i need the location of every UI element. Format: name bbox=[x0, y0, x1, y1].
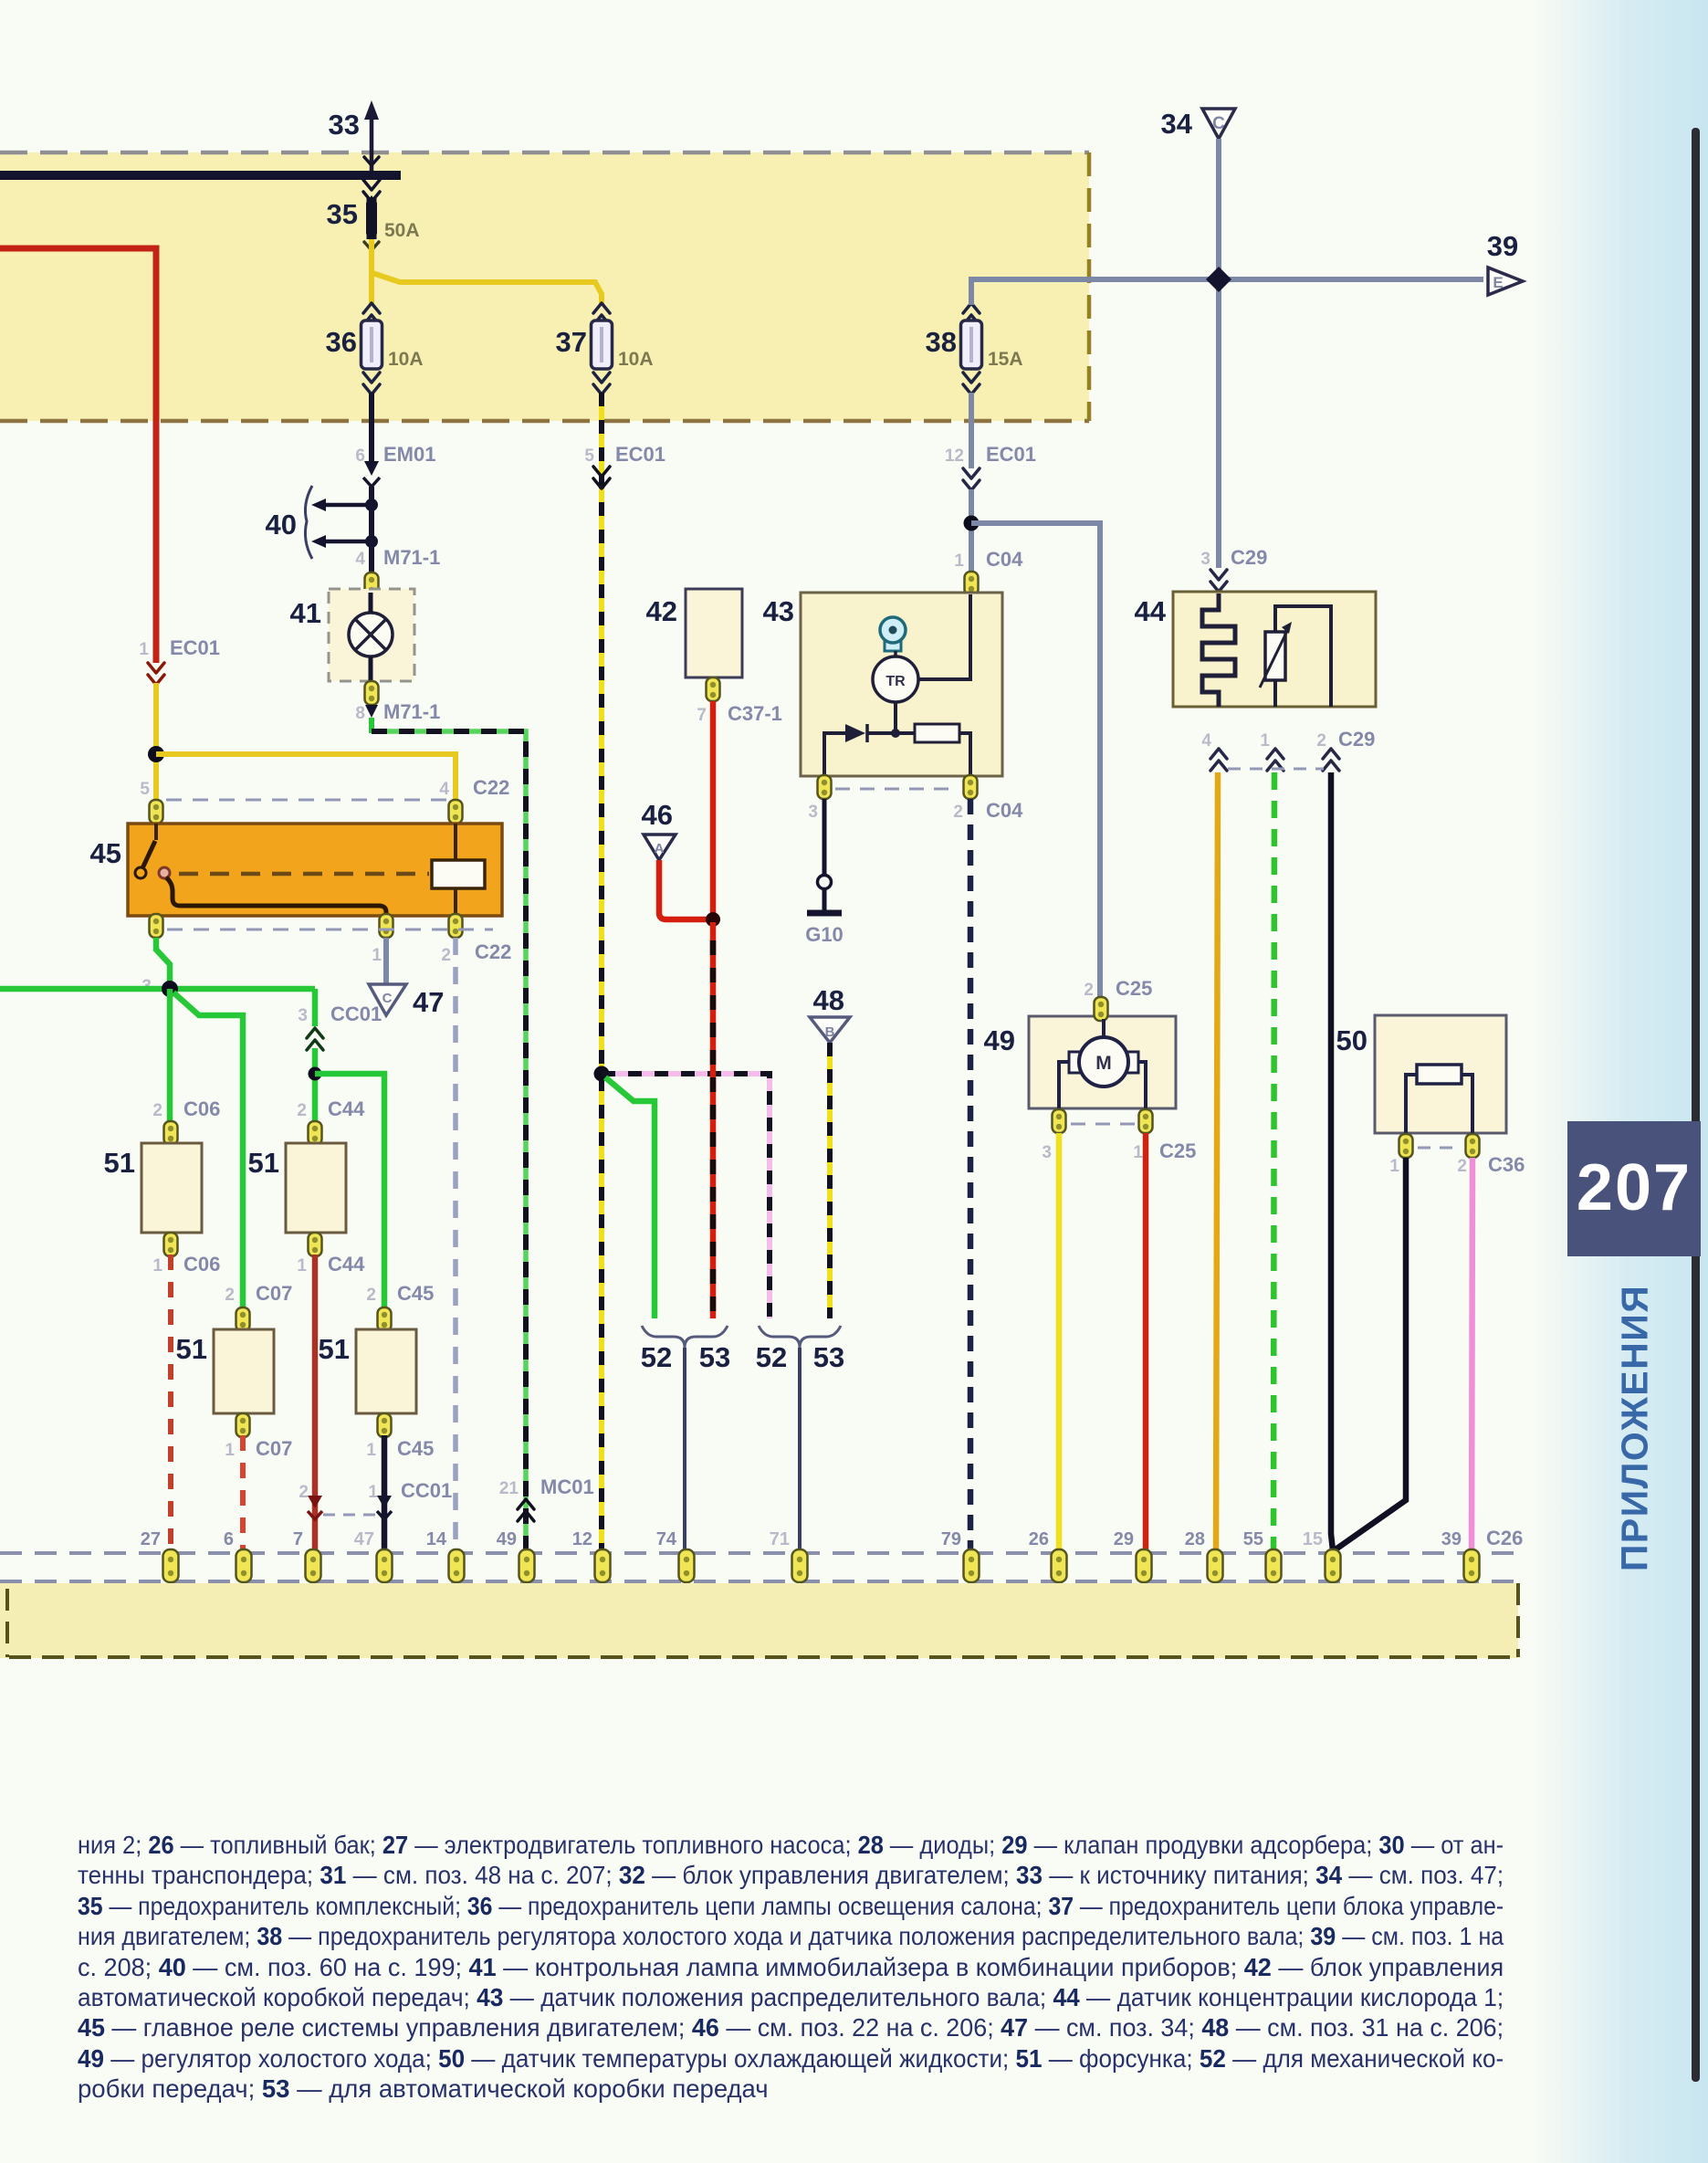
connector pad M71-1 pin 8 bbox=[365, 681, 379, 705]
svg-text:EC01: EC01 bbox=[986, 443, 1036, 466]
wire EM01 to connector M71-1 bbox=[369, 487, 374, 573]
connector C36 dashed line bbox=[1418, 1147, 1462, 1150]
svg-text:8: 8 bbox=[355, 704, 365, 723]
svg-text:47: 47 bbox=[413, 986, 444, 1018]
ground G10 bbox=[807, 910, 842, 917]
svg-text:39: 39 bbox=[1441, 1529, 1462, 1549]
svg-text:2: 2 bbox=[366, 1286, 376, 1305]
gray wire fuse38 to EC01 connector bbox=[969, 393, 974, 468]
svg-text:6: 6 bbox=[355, 446, 365, 466]
yellow/black dashed wire from 48 (53 group) bbox=[827, 1043, 833, 1318]
ECU connector lower dashed line bbox=[0, 1580, 1515, 1583]
svg-text:7: 7 bbox=[697, 706, 707, 725]
red wire from node 46 to junction bbox=[659, 860, 713, 919]
junction on C04 wire bbox=[964, 516, 980, 531]
svg-text:53: 53 bbox=[699, 1341, 730, 1373]
svg-text:55: 55 bbox=[1243, 1529, 1263, 1549]
svg-text:3: 3 bbox=[1042, 1143, 1052, 1162]
wire from right brace to ECU pin 71 bbox=[798, 1348, 802, 1559]
svg-text:37: 37 bbox=[556, 326, 587, 358]
connector pads C36 pins 1 and 2 bbox=[1399, 1134, 1413, 1158]
svg-text:M71-1: M71-1 bbox=[383, 700, 440, 723]
svg-text:1: 1 bbox=[368, 1483, 378, 1502]
svg-text:1: 1 bbox=[225, 1441, 235, 1460]
svg-text:C45: C45 bbox=[397, 1282, 434, 1305]
motor symbol in 49 bbox=[1102, 1019, 1105, 1041]
svg-text:39: 39 bbox=[1487, 230, 1518, 262]
green wire relay pin3 to junction bbox=[156, 938, 170, 989]
red wire from 42 down bbox=[710, 701, 717, 922]
green dashed wire 44 pin1 to ECU pin 55 bbox=[1273, 772, 1274, 1561]
svg-text:C07: C07 bbox=[256, 1437, 292, 1460]
svg-text:TR: TR bbox=[885, 674, 906, 689]
resistor symbol in 50 bbox=[1406, 1075, 1417, 1133]
fuse F37 10A (ECM circuit) bbox=[593, 303, 610, 325]
svg-text:10A: 10A bbox=[388, 349, 424, 370]
main gray wire from fuse 38 to node 39 bbox=[971, 279, 1483, 305]
right page-edge cyan gradient band bbox=[1534, 0, 1708, 2163]
svg-text:27: 27 bbox=[141, 1529, 161, 1549]
svg-text:C06: C06 bbox=[183, 1253, 220, 1276]
svg-text:1: 1 bbox=[297, 1256, 307, 1276]
svg-text:2: 2 bbox=[1316, 731, 1326, 751]
black wire injector C45 to ECU pin 47 bbox=[382, 1435, 388, 1559]
immobilizer warning lamp 41 (dashed box) bbox=[329, 589, 414, 681]
wire from left brace to ECU pin 74 bbox=[683, 1348, 686, 1559]
pink/black dashed branch wire (52/53 group) bbox=[602, 1074, 770, 1318]
svg-text:10A: 10A bbox=[618, 349, 654, 370]
wire fuse36 to EM01 connector bbox=[369, 393, 374, 461]
svg-text:A: A bbox=[655, 841, 665, 856]
fuse F35 50A (complex fuse) bbox=[366, 195, 377, 241]
svg-text:52: 52 bbox=[641, 1341, 672, 1373]
svg-text:79: 79 bbox=[941, 1529, 961, 1549]
svg-text:1: 1 bbox=[366, 1441, 376, 1460]
svg-text:21: 21 bbox=[499, 1479, 519, 1498]
connector CC01 dashed line bbox=[323, 1514, 377, 1517]
node 47 triangle C (see item 34) bbox=[369, 984, 406, 1015]
relay 45 dashed control line bbox=[179, 872, 429, 877]
connector C25 dashed line bbox=[1071, 1123, 1135, 1126]
svg-text:42: 42 bbox=[646, 595, 677, 627]
svg-text:43: 43 bbox=[763, 595, 794, 627]
red wire 49 pin1 to ECU pin 29 bbox=[1143, 1133, 1149, 1559]
svg-text:4: 4 bbox=[439, 780, 449, 799]
svg-text:C25: C25 bbox=[1159, 1139, 1196, 1162]
svg-text:15A: 15A bbox=[988, 349, 1023, 370]
connector pads C22 pins 5 and 4 bbox=[150, 800, 163, 824]
svg-text:CC01: CC01 bbox=[330, 1003, 382, 1025]
junction on EC01 wire bbox=[594, 1066, 610, 1082]
connector C04 dashed line bbox=[835, 788, 959, 791]
ATX control unit 42 bbox=[686, 589, 742, 677]
yellow wire to relay 45 pin 4 bbox=[156, 754, 456, 802]
svg-text:C37-1: C37-1 bbox=[728, 702, 782, 725]
lamp symbol inside 41 bbox=[349, 613, 393, 656]
svg-text:34: 34 bbox=[1161, 108, 1193, 140]
svg-text:1: 1 bbox=[954, 551, 964, 571]
green branch wire (52 manual gearbox) bbox=[605, 1077, 655, 1318]
main engine-control relay 45 box bbox=[128, 824, 502, 916]
sidebar title bbox=[1634, 1427, 1636, 1429]
TR circle in 43 bbox=[894, 651, 897, 659]
svg-text:C44: C44 bbox=[328, 1253, 365, 1276]
fuse box bottom dashed border bbox=[0, 419, 1089, 424]
svg-text:48: 48 bbox=[813, 984, 844, 1016]
connector pad C37-1 pin 7 bbox=[707, 677, 720, 701]
svg-text:2: 2 bbox=[297, 1101, 307, 1120]
svg-text:M: M bbox=[1095, 1053, 1112, 1074]
junction diamond at 34/39 wire crossing bbox=[1206, 267, 1231, 292]
red wire from left edge (ignition feed) bbox=[0, 248, 156, 663]
svg-text:51: 51 bbox=[104, 1147, 135, 1179]
fuse/relay box (power distribution, yellow) bbox=[0, 152, 1089, 421]
junction on green wire bbox=[162, 981, 178, 997]
gray wire relay pin1 to node 47 bbox=[383, 938, 389, 984]
page scan edge dark line bbox=[1692, 128, 1700, 2082]
svg-text:7: 7 bbox=[293, 1529, 303, 1549]
svg-text:46: 46 bbox=[642, 799, 673, 831]
svg-text:35: 35 bbox=[327, 198, 358, 230]
red dashed wire injector C06 to ECU pin 27 bbox=[168, 1255, 173, 1559]
variable resistor in 44 bbox=[1275, 606, 1331, 707]
svg-text:C26: C26 bbox=[1486, 1527, 1523, 1549]
heater element in 44 bbox=[1202, 593, 1235, 707]
svg-text:CC01: CC01 bbox=[401, 1479, 452, 1502]
idle air control valve 49 box bbox=[1029, 1016, 1176, 1108]
connector C22 bottom dashed line bbox=[167, 929, 493, 931]
connector C29 chevrons bbox=[1210, 749, 1227, 771]
svg-text:3: 3 bbox=[808, 803, 818, 822]
svg-text:38: 38 bbox=[926, 326, 957, 358]
svg-text:33: 33 bbox=[329, 109, 360, 141]
svg-text:51: 51 bbox=[319, 1333, 350, 1365]
junction of red wires bbox=[706, 912, 720, 927]
svg-text:15: 15 bbox=[1303, 1529, 1323, 1549]
svg-text:50A: 50A bbox=[384, 220, 420, 241]
wiring inside 43 bbox=[918, 594, 970, 679]
node 34 triangle C (from item 47) bbox=[1202, 109, 1235, 139]
green feed wire from left edge bbox=[0, 986, 315, 992]
connector C22 top dashed line bbox=[166, 799, 447, 802]
svg-text:2: 2 bbox=[1084, 981, 1094, 1000]
black wire 50 pin1 to ECU pin 15 bbox=[1336, 1158, 1406, 1549]
svg-text:G10: G10 bbox=[805, 923, 844, 946]
red dashed wire injector C07 to ECU pin 6 bbox=[240, 1435, 246, 1559]
fuse box top dashed border bbox=[0, 151, 1089, 155]
wire EC01 to camshaft sensor bbox=[969, 489, 974, 573]
black/white dashed wire 43 pin2 to ECU pin 79 bbox=[968, 799, 974, 1559]
gold wire 44 pin4 to ECU pin 28 bbox=[1216, 772, 1218, 1559]
page number tab 207 bbox=[1567, 1121, 1701, 1256]
svg-text:C: C bbox=[1212, 114, 1225, 133]
svg-text:C29: C29 bbox=[1338, 728, 1375, 751]
node 48 triangle B (from item 31 p.206) bbox=[810, 1017, 850, 1043]
brace group 52/53 (right pair) bbox=[759, 1326, 841, 1348]
engine control unit 32 (ECU yellow box) bbox=[0, 1583, 1518, 1658]
connector pads C22 pins 3 1 2 bbox=[150, 914, 163, 938]
junction on green wire at C44 bbox=[309, 1067, 322, 1081]
connector pad C04 pin 1 bbox=[965, 572, 979, 595]
green wire to injector C06 bbox=[167, 989, 173, 1123]
green stub below lamp 41 bbox=[369, 718, 374, 733]
svg-text:47: 47 bbox=[354, 1529, 374, 1549]
ground wire from 43 pin 3 bbox=[823, 799, 827, 876]
wire from node 34 down to camshaft-sensor branch bbox=[1216, 139, 1221, 568]
svg-text:1: 1 bbox=[1133, 1143, 1143, 1162]
brace group 52/53 (left pair) bbox=[642, 1326, 728, 1348]
relay 45 contact output wire bbox=[166, 877, 386, 916]
dark red wire injector C44 to ECU pin 7 bbox=[312, 1255, 319, 1559]
svg-text:C25: C25 bbox=[1116, 977, 1152, 1000]
yellow wire 49 pin3 to ECU pin 26 bbox=[1056, 1133, 1063, 1559]
svg-text:2: 2 bbox=[225, 1286, 235, 1305]
svg-text:29: 29 bbox=[1114, 1529, 1134, 1549]
connector chevrons below bus bar bbox=[364, 157, 379, 165]
gray branch wire to idle regulator 49 bbox=[971, 523, 1100, 998]
svg-text:M71-1: M71-1 bbox=[383, 546, 440, 569]
svg-text:1: 1 bbox=[1260, 731, 1270, 751]
svg-text:C: C bbox=[382, 991, 393, 1006]
svg-text:4: 4 bbox=[355, 550, 365, 569]
svg-text:C44: C44 bbox=[328, 1097, 365, 1120]
green branch to injector C45 bbox=[315, 1074, 384, 1309]
svg-text:C45: C45 bbox=[397, 1437, 434, 1460]
yellow/black dashed wire EC01 from fuse 37 to ECU pin 12 bbox=[599, 393, 604, 1559]
svg-text:2: 2 bbox=[441, 946, 451, 965]
svg-text:71: 71 bbox=[770, 1529, 790, 1549]
pink wire 50 pin2 to ECU pin 39 bbox=[1472, 1158, 1472, 1559]
svg-text:4: 4 bbox=[1201, 731, 1211, 751]
fuse box right dashed border bbox=[1087, 152, 1092, 421]
svg-text:14: 14 bbox=[426, 1529, 447, 1549]
diode symbol in 43 bbox=[845, 724, 865, 742]
resistor symbol in 43 bbox=[915, 724, 959, 742]
black/green dashed wire from 41 to ECU pin 49 bbox=[372, 731, 526, 1559]
junction on yellow wire bbox=[148, 746, 164, 762]
ECU connector upper dashed line bbox=[0, 1551, 1515, 1555]
svg-text:28: 28 bbox=[1185, 1529, 1205, 1549]
gray/blue dashed wire relay pin2 to ECU pin 14 bbox=[453, 938, 458, 1559]
yellow branch wire to fuse 37 bbox=[372, 273, 602, 305]
svg-text:C36: C36 bbox=[1488, 1153, 1525, 1176]
svg-text:50: 50 bbox=[1336, 1024, 1367, 1056]
svg-text:1: 1 bbox=[139, 640, 149, 659]
connector pad M71-1 pin 4 bbox=[365, 572, 379, 596]
connector C29 dashed line bbox=[1228, 768, 1324, 771]
oxygen sensor 44 box bbox=[1173, 592, 1376, 707]
svg-text:2: 2 bbox=[152, 1101, 162, 1120]
relay 45 switch symbol bbox=[154, 824, 158, 840]
connector pads C04 pins 3 and 2 bbox=[818, 775, 832, 799]
svg-text:5: 5 bbox=[584, 446, 594, 466]
yellow wire EC01 to relay 45 pin 5 bbox=[153, 683, 159, 802]
svg-text:EC01: EC01 bbox=[170, 636, 220, 659]
svg-text:12: 12 bbox=[572, 1529, 592, 1549]
connector pads C25 pins 3 and 1 bbox=[1053, 1109, 1066, 1133]
svg-text:B: B bbox=[825, 1024, 835, 1040]
green branch to injector C07 bbox=[173, 992, 243, 1309]
svg-text:40: 40 bbox=[266, 509, 297, 541]
svg-text:2: 2 bbox=[299, 1483, 309, 1502]
svg-text:52: 52 bbox=[756, 1341, 787, 1373]
hall element symbol in 43 bbox=[885, 638, 901, 651]
yellow wire from fuse 35 to fuse 36 bbox=[369, 239, 374, 305]
svg-text:C22: C22 bbox=[473, 776, 509, 799]
connector pad C25 pin 2 bbox=[1095, 997, 1108, 1021]
svg-text:74: 74 bbox=[656, 1529, 677, 1549]
svg-text:51: 51 bbox=[176, 1333, 207, 1365]
svg-text:41: 41 bbox=[290, 597, 321, 629]
svg-text:C22: C22 bbox=[475, 940, 511, 963]
svg-text:36: 36 bbox=[326, 326, 357, 358]
svg-text:3: 3 bbox=[298, 1006, 308, 1025]
svg-text:49: 49 bbox=[497, 1529, 517, 1549]
coolant temperature sensor 50 box bbox=[1375, 1015, 1506, 1133]
node 46 triangle A (from item 22 p.206) bbox=[644, 835, 676, 860]
svg-text:C29: C29 bbox=[1231, 546, 1267, 569]
svg-text:EM01: EM01 bbox=[383, 443, 435, 466]
svg-text:C04: C04 bbox=[986, 799, 1023, 822]
battery feed bus bar (thick black wire) bbox=[0, 171, 401, 180]
svg-text:45: 45 bbox=[90, 837, 121, 869]
red/black dashed wire down to 53 group bbox=[710, 922, 717, 1318]
green wire to junction at C44 bbox=[312, 1048, 319, 1123]
fuse F36 10A (interior lamp circuit) bbox=[363, 303, 380, 325]
legend text bbox=[78, 1830, 1504, 1860]
green wire CC01 branch bbox=[312, 989, 319, 1026]
svg-text:C04: C04 bbox=[986, 548, 1023, 571]
svg-text:MC01: MC01 bbox=[540, 1475, 594, 1498]
svg-text:C07: C07 bbox=[256, 1282, 292, 1305]
svg-text:1: 1 bbox=[372, 946, 382, 965]
node 33 (to power source) arrow up bbox=[370, 117, 374, 179]
svg-text:2: 2 bbox=[1457, 1157, 1467, 1176]
svg-text:53: 53 bbox=[813, 1341, 844, 1373]
svg-text:44: 44 bbox=[1135, 595, 1167, 627]
svg-text:26: 26 bbox=[1029, 1529, 1049, 1549]
svg-text:E: E bbox=[1493, 274, 1503, 291]
node 39 triangle E (to item 1 p.208) bbox=[1488, 268, 1523, 295]
chevron below fuse 35 bbox=[364, 242, 379, 250]
svg-text:EC01: EC01 bbox=[615, 443, 665, 466]
camshaft position sensor 43 box bbox=[801, 593, 1002, 776]
fuse F38 15A (IAC / camshaft sensor) bbox=[963, 303, 980, 325]
relay 45 coil bbox=[454, 824, 457, 860]
node 40 pick-off arrows (see item 60 p.199) bbox=[365, 499, 378, 511]
svg-text:C06: C06 bbox=[183, 1097, 220, 1120]
svg-text:51: 51 bbox=[248, 1147, 279, 1179]
svg-text:12: 12 bbox=[945, 446, 964, 466]
svg-text:5: 5 bbox=[140, 780, 150, 799]
svg-text:6: 6 bbox=[224, 1529, 234, 1549]
svg-text:3: 3 bbox=[1200, 550, 1210, 569]
svg-text:2: 2 bbox=[953, 803, 963, 822]
svg-text:1: 1 bbox=[1389, 1157, 1399, 1176]
svg-text:49: 49 bbox=[984, 1024, 1015, 1056]
svg-text:1: 1 bbox=[152, 1256, 162, 1276]
black wire 44 pin2 to ECU pin 15 bbox=[1331, 772, 1334, 1559]
